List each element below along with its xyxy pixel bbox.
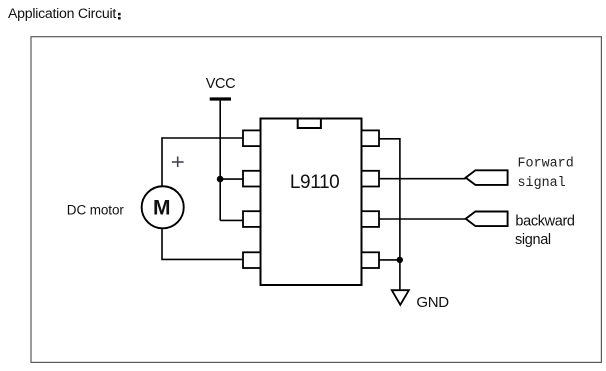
pin 1R	[362, 130, 380, 146]
polarity plus sign	[172, 157, 184, 168]
wire pin 4R to GND node	[379, 259, 400, 261]
svg-text:L9110: L9110	[290, 172, 339, 193]
wire pin 1R to GND rail	[379, 139, 400, 290]
svg-text:GND: GND	[416, 294, 449, 311]
svg-text:Forward: Forward	[518, 157, 574, 172]
svg-text:signal: signal	[515, 232, 551, 248]
IC U1 body	[261, 119, 362, 286]
connector forward signal	[466, 170, 508, 185]
pin 4L	[243, 252, 261, 268]
connector backward signal	[466, 212, 508, 227]
pin 3L	[243, 211, 261, 227]
junction dot GND node	[397, 257, 403, 263]
pin 1L	[243, 130, 261, 146]
motor M circle	[142, 186, 184, 228]
ground symbol GND triangle	[392, 290, 409, 305]
svg-text:M: M	[153, 196, 171, 219]
label Forward signal	[518, 157, 574, 192]
svg-text:VCC: VCC	[206, 76, 235, 92]
wire pin 3R to backward connector	[379, 218, 466, 220]
svg-text:backward: backward	[515, 214, 575, 230]
pin 3R	[362, 211, 380, 227]
svg-text:DC motor: DC motor	[67, 203, 125, 218]
label backward signal	[515, 214, 575, 249]
IC notch index mark	[298, 119, 321, 129]
pin 2R	[362, 171, 380, 187]
wire motor bottom to pin 4L	[162, 228, 243, 259]
power symbol VCC	[206, 76, 235, 99]
pin 2L	[243, 171, 261, 187]
svg-text:signal: signal	[518, 176, 566, 191]
caption "Application Circuit:"	[8, 5, 121, 21]
wire pin 2R to forward connector	[379, 178, 466, 180]
wire VCC rail: bar down to pin 3L row, branches to pin 2L and pin 3L	[220, 101, 243, 221]
pin 4R	[362, 252, 380, 268]
wire motor top to pin 1L	[162, 138, 243, 186]
junction dot VCC node	[217, 176, 224, 183]
svg-text:Application Circuit: Application Circuit	[8, 5, 116, 21]
